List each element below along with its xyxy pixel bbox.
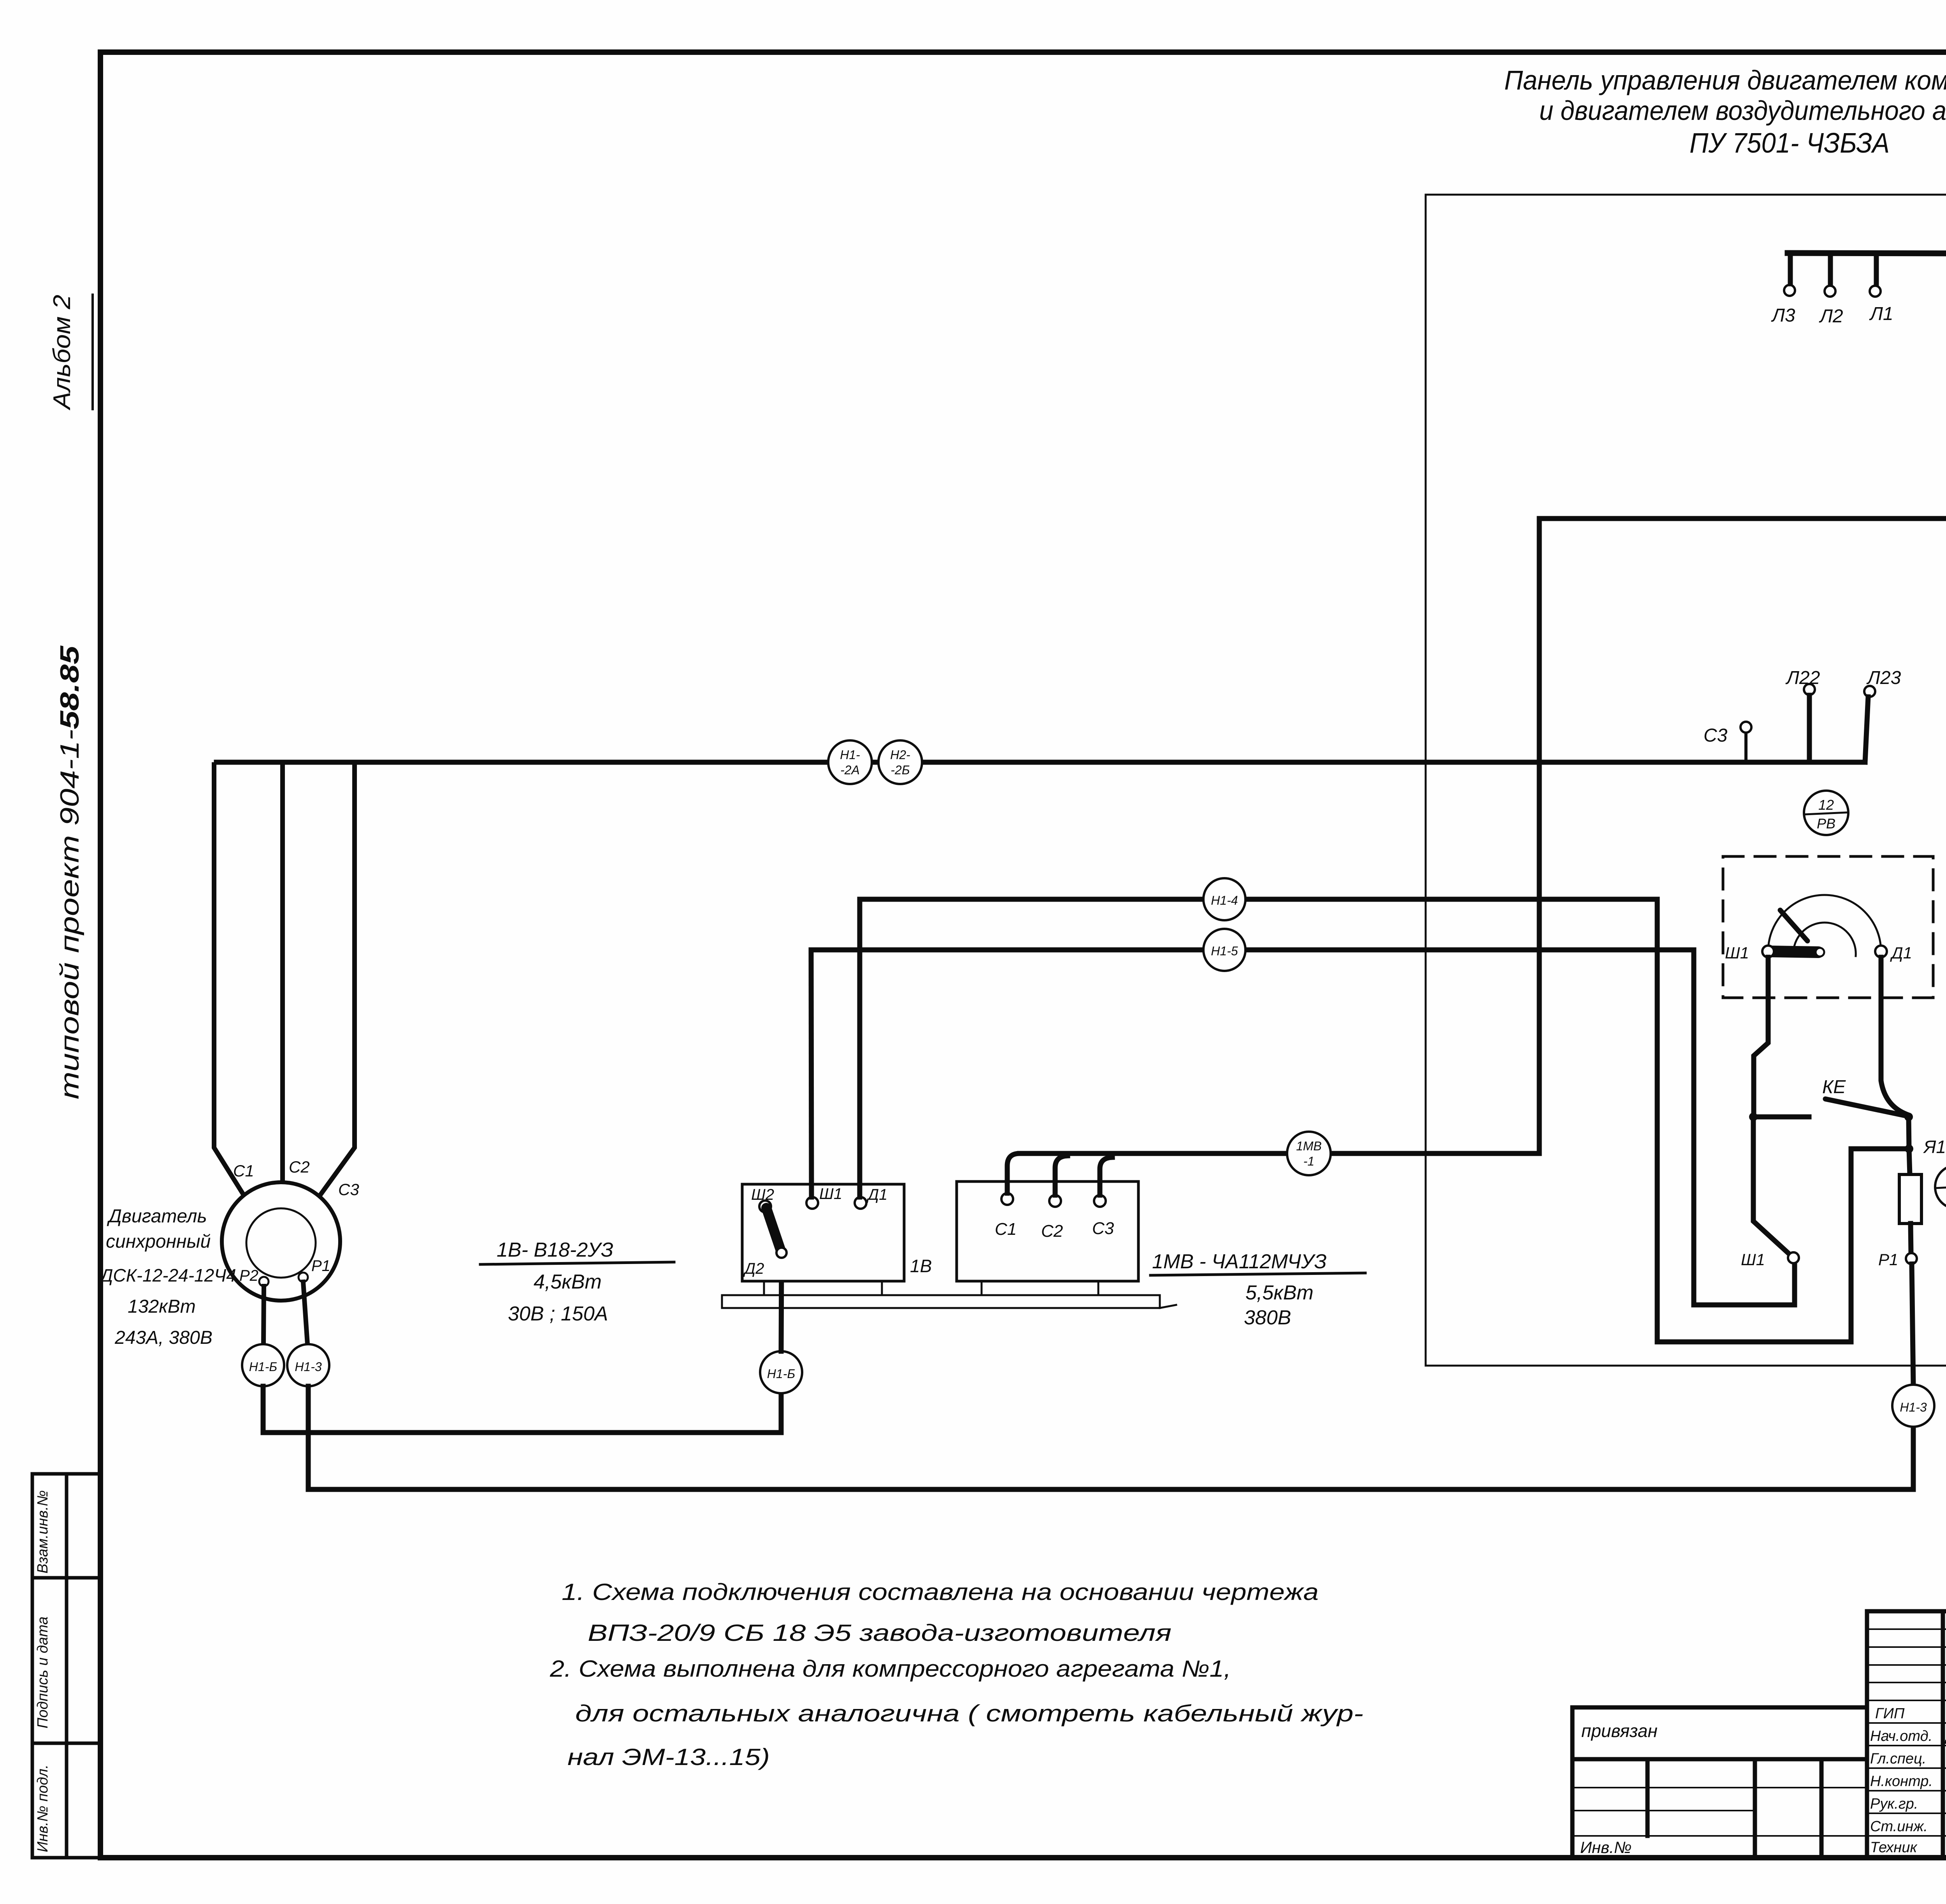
terminal С3 (1МВ) [1094,1195,1106,1207]
terminal С2 (1МВ) [1049,1195,1061,1207]
wire Н1-4 run [860,899,1906,1342]
cable marker Н1-5 [1203,929,1245,971]
cable marker 1МВ-1 [1287,1132,1331,1175]
wire С1 riser [1007,1153,1020,1193]
terminal Ш1 (rheostat) [1762,946,1774,957]
svg-text:Р2: Р2 [239,1267,258,1284]
svg-text:Я1: Я1 [1923,1137,1946,1157]
cable marker Н1-Б (exciter end) [760,1351,802,1393]
svg-text:для остальных аналогична (: для остальных аналогична ( смотреть кабе… [575,1700,1363,1726]
rail leg 4 [1098,1281,1099,1295]
wire stub Л2 [1828,253,1833,284]
svg-text:Техник: Техник [1870,1839,1918,1856]
TOP BUS / KTPN LINE [1771,229,1946,327]
terminal Ш2 (1В) [759,1201,771,1212]
svg-text:С2: С2 [1041,1222,1063,1241]
wire Д1(1В) up to Н1-4 [857,899,862,1197]
wire Ш1 chain down to junction [1753,1120,1790,1254]
wire from rheostat Д1 down [1881,957,1906,1114]
signature table [1867,1611,1946,1858]
cable marker Н1-Б (motor) [242,1344,284,1386]
cable marker Н1-3 (panel) [1892,1385,1934,1427]
terminal С1 (1МВ) [1001,1193,1013,1205]
svg-text:Н1-3: Н1-3 [295,1360,322,1374]
svg-text:Ш2: Ш2 [751,1186,774,1203]
cable marker Н2-2Б [878,740,922,784]
svg-text:Альбом 2: Альбом 2 [49,295,76,411]
terminal Л22 [1804,684,1815,695]
svg-text:ПУ 7501- ЧЗБЗА: ПУ 7501- ЧЗБЗА [1690,128,1890,159]
underline [1150,1273,1365,1275]
wire: motor 3-phase bus Н1-2А/Н2-2Б [216,760,1865,765]
wire: КТПН bus [1788,253,1946,255]
svg-text:синхронный: синхронный [106,1231,211,1252]
wire С2 riser [1055,1156,1068,1195]
svg-text:-2Б: -2Б [890,763,910,777]
svg-text:Д1: Д1 [866,1186,887,1203]
svg-text:380В: 380В [1244,1306,1291,1329]
wire from rheostat Ш1 down [1754,957,1768,1114]
svg-text:Л3: Л3 [1771,305,1795,326]
svg-text:С3: С3 [1092,1219,1114,1238]
svg-text:ГИП: ГИП [1875,1705,1905,1722]
svg-text:4,5кВт: 4,5кВт [534,1271,602,1293]
svg-text:Д2: Д2 [743,1260,764,1277]
wire Н1-Б run to exciter [263,1386,781,1433]
MOTOR-EXCITER MOUNTING RAIL [722,1281,1176,1308]
wire stub Л1 [1874,253,1879,284]
svg-text:Ш1: Ш1 [1725,944,1749,962]
signature table name labels [1944,1705,1946,1856]
svg-text:Гл.спец.: Гл.спец. [1870,1751,1926,1767]
terminal Л1 [1870,286,1881,297]
cable marker Н1-3 (motor) [287,1344,329,1386]
junction dot Я1 top [1904,1113,1913,1121]
svg-text:Н.контр.: Н.контр. [1870,1773,1933,1790]
svg-text:Л1: Л1 [1869,304,1893,324]
svg-text:Рук.гр.: Рук.гр. [1870,1796,1918,1812]
signature table role labels [1870,1705,1933,1856]
FIELD CIRCUIT INSIDE PANEL [1741,791,1946,1427]
svg-text:1МВ: 1МВ [1296,1139,1322,1153]
terminal Р1 (motor) [299,1273,308,1282]
motor М1 stator circle [222,1182,340,1301]
svg-text:-1: -1 [1303,1154,1314,1168]
MOTOR [98,765,1913,1489]
rheostat adjustment arrow [1780,910,1807,941]
terminal Д1 (rheostat) [1875,946,1887,957]
svg-text:С2: С2 [289,1158,310,1176]
svg-text:Д1: Д1 [1890,944,1912,962]
svg-text:С1: С1 [233,1162,254,1180]
svg-text:нал ЭМ-13...15): нал ЭМ-13...15) [567,1744,770,1770]
wire riser to Л23 [1865,697,1868,762]
CONTROL WIRES Н1-4 / Н1-5 [811,878,1906,1342]
svg-text:Р1: Р1 [1878,1250,1898,1269]
svg-text:С1: С1 [995,1220,1017,1239]
wire Н1-3 long run to panel [308,1386,1913,1489]
wire motor lead С2 [280,765,285,1182]
wire Ш1(1В) up to Н1-5 [811,950,811,1197]
svg-text:Инв.№ подл.: Инв.№ подл. [35,1765,51,1852]
wire motor lead С3 [321,765,355,1194]
junction dot Я1 [1905,1145,1913,1153]
svg-text:ВПЗ-20/9 СБ 18 Э5 завода-изг: ВПЗ-20/9 СБ 18 Э5 завода-изготовителя [588,1620,1171,1646]
underline [480,1262,674,1264]
svg-text:С3: С3 [1704,725,1728,746]
svg-text:РВ: РВ [1817,816,1835,832]
rail leg 2 [881,1281,883,1295]
left margin strip table [32,1474,100,1858]
junction Ш1 (lower) [1788,1252,1799,1263]
svg-text:Ст.инж.: Ст.инж. [1870,1818,1928,1835]
wire resistor to Р1 [1911,1224,1911,1253]
resistor (discharge) [1899,1174,1921,1224]
svg-text:Взам.инв.№: Взам.инв.№ [35,1490,51,1573]
wire Р1 down [303,1282,307,1344]
svg-text:1В- В18-2УЗ: 1В- В18-2УЗ [497,1239,613,1261]
wire stub Л3 [1788,253,1793,284]
svg-text:Л23: Л23 [1866,668,1901,688]
wire to Я1 node [1909,1117,1909,1149]
svg-text:Н1-Б: Н1-Б [767,1367,795,1381]
control panel enclosure outline [1426,195,1946,1366]
wire motor lead С1 [214,765,243,1194]
contact КЕ blade [1825,1099,1906,1116]
cable marker Н1-2А [828,740,872,784]
svg-text:1В: 1В [910,1256,932,1276]
junction dot (КЕ left) [1749,1113,1758,1121]
svg-text:Нач.отд.: Нач.отд. [1870,1728,1932,1744]
wire Я1 to resistor [1909,1149,1910,1174]
wire Р1 down to Н1-3 [1912,1264,1913,1385]
wire Н1-5 run [811,950,1795,1305]
привязан box [1572,1707,1867,1858]
RHEOSTAT (dashed box) [1723,856,1933,998]
svg-text:Инв.№: Инв.№ [1580,1838,1632,1857]
svg-text:Л2: Л2 [1819,306,1843,327]
motor rotor circle [246,1208,316,1278]
svg-text:Н1-3: Н1-3 [1900,1400,1927,1414]
svg-text:ДСК-12-24-12Ч4: ДСК-12-24-12Ч4 [98,1265,236,1285]
fan motor 1МВ body [957,1181,1138,1281]
rheostat inner arc [1793,923,1856,956]
cable marker Н1-4 [1203,878,1245,920]
relay marker 12/РВ [1804,791,1848,835]
svg-text:30В ; 150А: 30В ; 150А [508,1303,608,1325]
wire 1МВ supply run [1020,519,1946,1153]
svg-text:Н1-: Н1- [840,748,860,762]
exciter 1В body [742,1184,904,1281]
wire Р2 down [263,1286,264,1344]
TITLE BLOCK [1572,1561,1946,1860]
svg-text:Н2-: Н2- [890,748,910,762]
terminal Д1 (1В) [855,1197,866,1209]
rail leg 3 [981,1281,983,1295]
svg-text:Ш1: Ш1 [819,1185,842,1203]
svg-text:12: 12 [1818,797,1834,813]
svg-text:132кВт: 132кВт [128,1296,196,1317]
MOTOR SUPPLY BUS [216,668,1901,784]
svg-text:243А, 380В: 243А, 380В [114,1327,213,1348]
terminal Р2 (motor) [259,1277,269,1286]
svg-text:КЕ: КЕ [1822,1077,1846,1097]
rheostat slider bar [1771,951,1818,952]
PANEL BOX [1426,195,1946,1366]
svg-text:Ш1: Ш1 [1741,1250,1765,1269]
terminal Л2 [1825,286,1835,297]
svg-text:Н1-5: Н1-5 [1211,944,1238,958]
svg-text:5,5кВт: 5,5кВт [1245,1282,1314,1304]
rail leg 1 [763,1281,765,1295]
svg-text:привязан: привязан [1581,1721,1658,1741]
FAN MOTOR 1МВ BOX [957,519,1946,1329]
svg-text:Подпись и дата: Подпись и дата [35,1617,51,1728]
svg-text:2. Схема выполнена для к: 2. Схема выполнена для компрессорного аг… [550,1656,1231,1682]
svg-text:Н1-4: Н1-4 [1211,893,1238,907]
svg-text:Двигатель: Двигатель [107,1206,207,1227]
svg-text:Р1: Р1 [311,1257,330,1275]
terminal Р1 (panel) [1906,1253,1917,1264]
terminal С3 (panel) [1741,722,1751,733]
marker 16/2 [1935,1165,1946,1209]
svg-text:1МВ - ЧА112МЧУЗ: 1МВ - ЧА112МЧУЗ [1152,1250,1327,1273]
terminal Л23 [1864,686,1875,697]
svg-text:типовой проект 904-1-58.85: типовой проект 904-1-58.85 [55,645,84,1099]
rail bar [722,1295,1160,1308]
svg-text:Л22: Л22 [1785,668,1820,688]
svg-text:1. Схема подключения соста: 1. Схема подключения составлена на основ… [562,1579,1319,1605]
HEADER TEXT [1504,65,1946,159]
svg-text:Н1-Б: Н1-Б [249,1360,277,1374]
terminal Л3 [1784,285,1795,296]
wire С3 riser [1100,1157,1112,1195]
svg-text:и двигателем воздудительного: и двигателем воздудительного агрегата [1539,95,1946,126]
wire Н1-Б circle to Д2 [781,1257,782,1351]
terminal Д2 (1В) [776,1248,787,1258]
EXCITER 1В BOX [480,899,932,1325]
svg-text:С3: С3 [338,1180,359,1199]
brush link bar Ш2-Д2 [766,1208,781,1250]
rheostat outer arc [1768,895,1881,951]
svg-text:Панель управления двигателем: Панель управления двигателем компрессора [1504,65,1946,95]
wire КЕ fixed side [1758,1115,1809,1120]
wire stub Л22 [1807,695,1812,762]
terminal Ш1 (1В) [806,1197,818,1209]
rheostat enclosure (dashed) [1723,856,1933,998]
NOTES [550,1579,1363,1770]
svg-text:-2А: -2А [840,763,860,777]
wire stub С3 (panel) [1744,733,1748,762]
